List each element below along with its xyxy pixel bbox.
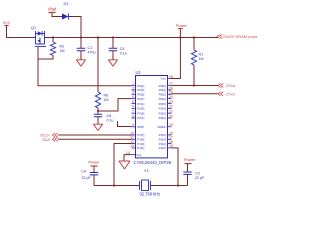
svg-text:SDA: SDA <box>42 138 50 142</box>
svg-text:C5: C5 <box>120 47 125 51</box>
wire rail down to R6 <box>97 38 99 93</box>
junction R1/CRxd net <box>193 84 195 86</box>
wire C5 stubs <box>112 38 114 60</box>
svg-text:Q1: Q1 <box>31 25 37 30</box>
svg-text:CY8C26443_DIP28: CY8C26443_DIP28 <box>133 160 171 165</box>
capacitor C5 <box>109 47 127 56</box>
wire R2 top stub <box>52 38 54 43</box>
svg-text:C2: C2 <box>195 171 200 175</box>
resistor R1 <box>191 50 203 65</box>
junction rail/R2 <box>52 36 54 38</box>
wire SDA to U1 <box>58 138 132 140</box>
svg-text:R6: R6 <box>104 93 109 97</box>
wire C2 bottom stub <box>187 174 189 185</box>
svg-text:22 pF: 22 pF <box>82 176 92 180</box>
wire main rail <box>47 37 218 39</box>
svg-text:Power: Power <box>88 160 100 165</box>
ground under U1 Vss <box>119 161 130 169</box>
svg-text:1M: 1M <box>104 98 109 102</box>
wire VCC to Q1 <box>7 25 34 37</box>
wire R2 bottom to gate line <box>38 56 53 60</box>
svg-text:0.1u: 0.1u <box>120 52 127 56</box>
ground under C8 <box>93 124 102 130</box>
capacitor C1 <box>77 46 96 55</box>
crystal Y1 <box>140 168 161 197</box>
svg-text:28: 28 <box>169 75 173 79</box>
svg-text:Vss: Vss <box>136 153 142 157</box>
wire SCLK to U1 <box>58 134 132 136</box>
capacitor C8 <box>94 114 114 123</box>
wire U1 pin 12 to crystal left <box>114 144 132 186</box>
svg-text:P2[3]: P2[3] <box>137 107 144 111</box>
svg-text:22: 22 <box>169 105 173 109</box>
wire crystal bottom net <box>94 185 188 187</box>
capacitor C4 <box>82 170 99 181</box>
svg-text:SCLK: SCLK <box>40 133 50 137</box>
svg-text:20: 20 <box>169 114 173 118</box>
svg-text:21: 21 <box>169 110 173 114</box>
wire Vbat to D1 <box>52 12 61 16</box>
off-page connector CTxd <box>218 92 235 97</box>
transistor Q1 (P-MOSFET) <box>31 25 47 49</box>
ground under C1 <box>76 60 85 66</box>
svg-text:P2[4]: P2[4] <box>159 107 166 111</box>
power symbol Power (top right) <box>176 23 188 29</box>
svg-text:23: 23 <box>169 100 173 104</box>
junction rail/R1 <box>193 36 195 38</box>
wire Power to C4 <box>93 166 95 173</box>
svg-text:P2[1]: P2[1] <box>137 102 144 106</box>
svg-text:9: 9 <box>132 123 134 127</box>
svg-text:24: 24 <box>169 95 173 99</box>
svg-text:P2[5]: P2[5] <box>137 111 144 115</box>
junction rail/R6 <box>97 36 99 38</box>
svg-text:13: 13 <box>130 144 134 148</box>
svg-text:32.768 kHz: 32.768 kHz <box>140 192 161 196</box>
svg-text:U1: U1 <box>136 70 142 75</box>
wire Power to U1 pin 28 Vcc <box>172 29 181 79</box>
svg-text:4: 4 <box>132 95 134 99</box>
svg-text:1M: 1M <box>199 57 204 61</box>
junction crystal net right <box>177 184 179 186</box>
svg-text:470u: 470u <box>88 51 96 55</box>
svg-text:P2[0]: P2[0] <box>159 116 166 120</box>
power symbol Vbat <box>48 7 57 13</box>
svg-text:22 pF: 22 pF <box>195 176 205 180</box>
resistor R2 <box>50 42 64 56</box>
power symbol VCC <box>3 21 11 25</box>
wire C8 bottom stub <box>97 117 99 124</box>
svg-text:XRES: XRES <box>158 125 166 129</box>
junction rail/D1-C1 <box>80 36 82 38</box>
svg-text:P2[7]: P2[7] <box>137 116 144 120</box>
off-page connector CMOS SRAM power <box>217 34 260 39</box>
svg-text:6: 6 <box>132 105 134 109</box>
svg-text:7: 7 <box>132 110 134 114</box>
svg-text:P1[1]: P1[1] <box>137 146 144 150</box>
power symbol Power (above C2) <box>184 157 196 163</box>
svg-text:CMOS SRAM power: CMOS SRAM power <box>223 34 258 39</box>
svg-text:P0[7]: P0[7] <box>137 97 144 101</box>
svg-text:R1: R1 <box>199 52 204 56</box>
svg-text:VCC: VCC <box>3 21 11 25</box>
junction R6/C8 <box>97 110 99 112</box>
svg-text:P2[6]: P2[6] <box>159 102 166 106</box>
capacitor C2 <box>183 171 205 180</box>
svg-text:Power: Power <box>184 157 196 162</box>
power symbol Power (above C4) <box>88 160 100 166</box>
resistor R6 <box>95 92 108 108</box>
svg-text:Power: Power <box>176 23 188 28</box>
svg-text:P0[0]: P0[0] <box>159 97 166 101</box>
svg-text:C1: C1 <box>88 46 93 50</box>
svg-text:R2: R2 <box>60 45 65 49</box>
off-page connector SDA <box>42 137 58 142</box>
diode D1 <box>61 1 73 20</box>
svg-text:1M: 1M <box>60 49 65 53</box>
off-page connector CRxd <box>218 83 235 88</box>
svg-text:D1: D1 <box>64 1 70 6</box>
svg-text:CTxd: CTxd <box>226 93 235 97</box>
svg-text:Y1: Y1 <box>144 168 150 173</box>
junction crystal net left <box>113 184 115 186</box>
svg-text:P2[2]: P2[2] <box>159 111 166 115</box>
wire U1 pin 27 to off-page CRxd <box>172 85 219 87</box>
svg-text:19: 19 <box>169 123 173 127</box>
wire D1 cathode to rail <box>73 17 82 38</box>
svg-text:C8: C8 <box>107 114 112 118</box>
svg-text:C4: C4 <box>82 170 87 174</box>
wire C1 stubs <box>80 38 82 60</box>
svg-text:0.1u: 0.1u <box>107 119 114 123</box>
wire U1 pin 15 to crystal right <box>172 148 179 186</box>
svg-text:Vcc: Vcc <box>161 77 167 81</box>
svg-text:5: 5 <box>132 100 134 104</box>
svg-text:8: 8 <box>132 114 134 118</box>
wire R6 bottom junction to U1 pin 4 <box>98 99 132 114</box>
wire Power to C2 <box>187 164 189 172</box>
wire Q1 gate down and right to U1 pin 1 <box>38 49 132 86</box>
wire SMP pin stub <box>118 121 132 127</box>
IC U1 <box>126 70 173 165</box>
svg-text:Vbat: Vbat <box>48 7 57 12</box>
junction rail/C5 <box>112 36 114 38</box>
junction rail/Power <box>179 36 181 38</box>
wire C4 bottom stub <box>93 175 95 186</box>
wire U1 pin 24 to off-page CTxd <box>172 93 219 95</box>
off-page connector SCLK <box>40 133 58 137</box>
svg-text:SMP: SMP <box>137 125 144 129</box>
ground under C5 <box>108 60 117 66</box>
wire R1 stubs <box>193 38 195 86</box>
svg-text:CRxd: CRxd <box>226 84 236 88</box>
svg-text:P1[0]: P1[0] <box>159 146 166 150</box>
wire U1 Vss to ground <box>124 155 132 161</box>
